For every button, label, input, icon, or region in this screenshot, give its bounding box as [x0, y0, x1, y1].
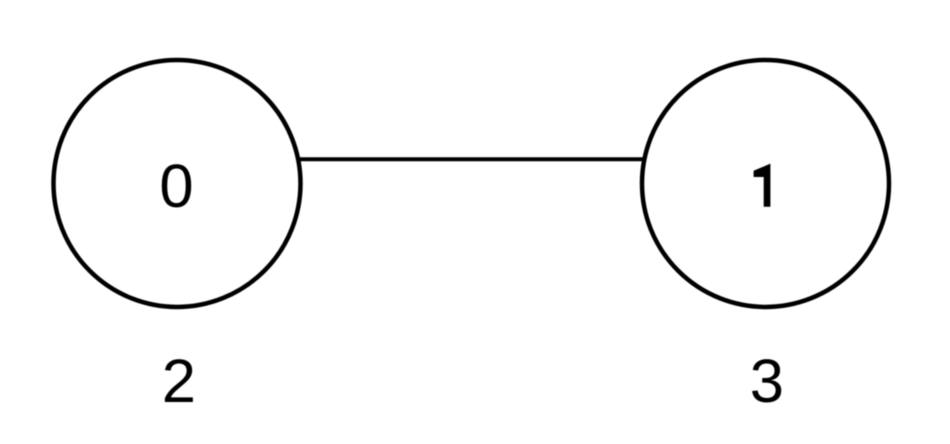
- node 1 circle: [642, 60, 889, 307]
- wire / edge between node 0 and node 1: [296, 157, 646, 161]
- svg-text:2: 2: [162, 347, 196, 416]
- svg-text:3: 3: [750, 347, 784, 416]
- node 1 label "1": [754, 164, 771, 207]
- svg-text:0: 0: [159, 152, 193, 221]
- node 0 circle: [54, 60, 301, 307]
